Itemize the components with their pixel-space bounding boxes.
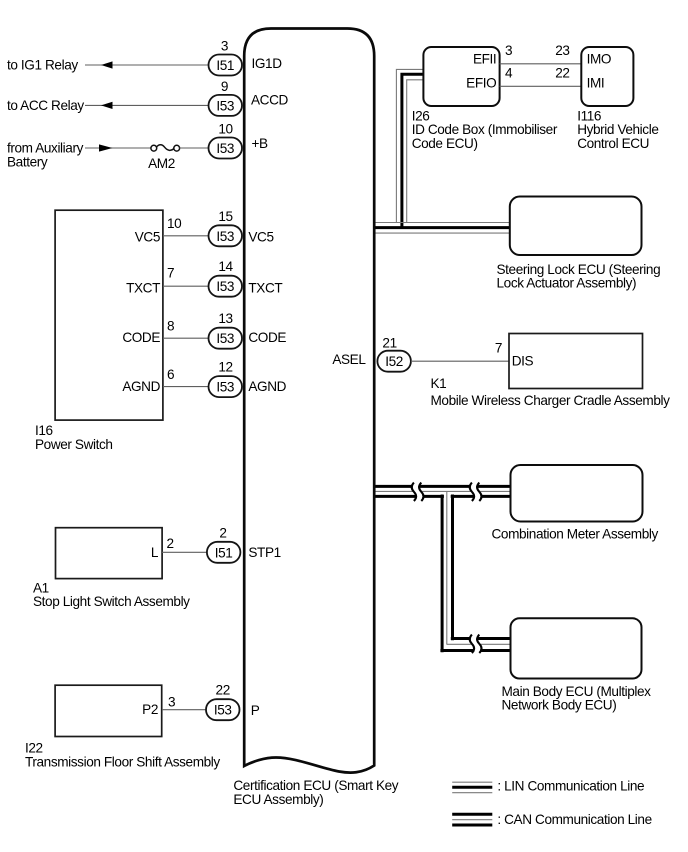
- connector I53 pin 14: [209, 259, 243, 297]
- svg-text:ID Code Box (Immobiliser: ID Code Box (Immobiliser: [412, 122, 558, 137]
- svg-text:to ACC Relay: to ACC Relay: [7, 98, 84, 113]
- svg-text:AGND: AGND: [248, 379, 286, 394]
- svg-text:Combination Meter Assembly: Combination Meter Assembly: [492, 527, 659, 542]
- LIN vertical bundle to ID Code Box: [396, 69, 423, 227]
- connector I53 pin 10: [209, 122, 243, 159]
- Stop Light Switch A1 box: [56, 528, 163, 579]
- CAN break symbol 2: [470, 483, 482, 501]
- svg-text:IMI: IMI: [587, 75, 605, 90]
- wire P: [162, 709, 206, 711]
- Hybrid Vehicle Control ECU I116 box: [581, 47, 633, 106]
- svg-text:Transmission Floor Shift Assem: Transmission Floor Shift Assembly: [25, 754, 220, 769]
- svg-text:ACCD: ACCD: [251, 92, 289, 107]
- arrow from Auxiliary Battery: [99, 144, 113, 151]
- svg-text:Certification ECU (Smart Key: Certification ECU (Smart Key: [233, 778, 398, 793]
- connector I53 pin 12: [209, 360, 243, 398]
- svg-text:Steering Lock ECU (Steering: Steering Lock ECU (Steering: [497, 262, 661, 277]
- svg-text:CODE: CODE: [248, 330, 286, 345]
- CAN horizontal bus to Combination Meter: [376, 486, 511, 498]
- svg-text:AM2: AM2: [148, 156, 175, 171]
- svg-text:K1: K1: [431, 376, 447, 391]
- connector I51 pin 3: [209, 39, 243, 76]
- svg-text:Lock Actuator Assembly): Lock Actuator Assembly): [497, 276, 637, 291]
- svg-text:P2: P2: [142, 702, 158, 717]
- connector I53 pin 9: [209, 79, 243, 116]
- svg-text:IG1D: IG1D: [252, 56, 283, 71]
- legend LIN symbol: [452, 782, 492, 793]
- svg-text:14: 14: [218, 259, 233, 274]
- svg-text:I26: I26: [412, 108, 430, 123]
- svg-text:I53: I53: [216, 98, 234, 113]
- LIN horizontal to Steering Lock ECU: [376, 223, 510, 234]
- svg-text:6: 6: [167, 367, 174, 382]
- svg-text:Control ECU: Control ECU: [577, 136, 649, 151]
- Power Switch I16 box: [55, 210, 163, 420]
- wire CODE: [163, 337, 209, 339]
- svg-text:I51: I51: [215, 545, 233, 560]
- svg-text:VC5: VC5: [135, 229, 160, 244]
- svg-text:4: 4: [505, 66, 513, 81]
- svg-text:CODE: CODE: [122, 330, 160, 345]
- legend CAN symbol: [452, 814, 492, 825]
- svg-text:to IG1 Relay: to IG1 Relay: [7, 58, 78, 73]
- arrow to ACC Relay: [101, 102, 113, 109]
- svg-text:I51: I51: [216, 58, 234, 73]
- svg-text:I53: I53: [214, 703, 232, 718]
- CAN break symbol 3: [470, 635, 482, 653]
- svg-text:Power Switch: Power Switch: [35, 437, 113, 452]
- svg-text:Code ECU): Code ECU): [412, 136, 478, 151]
- svg-text:15: 15: [218, 209, 232, 224]
- svg-text:I22: I22: [25, 741, 43, 756]
- Steering Lock ECU box: [510, 197, 642, 256]
- svg-text:3: 3: [221, 39, 228, 54]
- svg-text:EFII: EFII: [473, 51, 496, 66]
- Main Body ECU box: [511, 618, 642, 678]
- svg-text:P: P: [251, 703, 260, 718]
- svg-text:VC5: VC5: [248, 229, 273, 244]
- svg-text:I16: I16: [35, 423, 53, 438]
- wire VC5: [163, 235, 209, 237]
- svg-text:2: 2: [219, 525, 226, 540]
- Mobile Wireless Charger Cradle K1 box: [509, 334, 643, 389]
- wire STP1: [162, 551, 207, 553]
- svg-text:ASEL: ASEL: [332, 352, 366, 367]
- wire fuse to I53: [180, 147, 209, 149]
- svg-text:TXCT: TXCT: [248, 280, 282, 295]
- svg-text:L: L: [151, 545, 159, 560]
- svg-text:7: 7: [167, 265, 174, 280]
- wire from Auxiliary Battery: [85, 147, 151, 149]
- CAN break symbol 1: [412, 483, 424, 501]
- wire EFIO to IMI: [500, 85, 582, 87]
- wire to ACC Relay: [85, 104, 209, 106]
- connector I53 pin 15: [209, 209, 243, 247]
- svg-text:I53: I53: [216, 380, 234, 395]
- svg-text:7: 7: [495, 341, 502, 356]
- svg-text:10: 10: [218, 122, 233, 137]
- svg-text:12: 12: [218, 360, 232, 375]
- svg-text:10: 10: [167, 216, 182, 231]
- svg-text:Battery: Battery: [7, 154, 48, 169]
- svg-text:Hybrid Vehicle: Hybrid Vehicle: [577, 122, 658, 137]
- svg-text:I53: I53: [216, 229, 234, 244]
- svg-text:3: 3: [505, 43, 512, 58]
- svg-text:I53: I53: [216, 279, 234, 294]
- svg-text:22: 22: [216, 683, 230, 698]
- connector I51 pin 2: [207, 525, 241, 563]
- svg-text:Stop Light Switch Assembly: Stop Light Switch Assembly: [33, 594, 190, 609]
- svg-text:TXCT: TXCT: [126, 280, 160, 295]
- CAN vertical branch: [442, 491, 452, 652]
- svg-text:3: 3: [168, 695, 175, 710]
- ECU U1 Certification ECU body: [244, 29, 374, 773]
- svg-text:: LIN Communication Line: : LIN Communication Line: [497, 779, 644, 794]
- wire to IG1 Relay: [85, 64, 209, 66]
- svg-text:Main Body ECU (Multiplex: Main Body ECU (Multiplex: [502, 684, 652, 699]
- wire TXCT: [163, 285, 209, 287]
- wire AGND: [163, 386, 209, 388]
- connector I53 pin 13: [209, 311, 243, 349]
- svg-text:9: 9: [221, 79, 228, 94]
- svg-text:13: 13: [218, 311, 232, 326]
- svg-text:EFIO: EFIO: [466, 75, 496, 90]
- CAN lower horizontal to Main Body ECU: [440, 639, 511, 651]
- svg-text:22: 22: [555, 66, 569, 81]
- svg-text:2: 2: [167, 536, 174, 551]
- svg-text:ECU Assembly): ECU Assembly): [233, 792, 323, 807]
- svg-text:Network Body ECU): Network Body ECU): [502, 698, 617, 713]
- svg-text:I53: I53: [216, 331, 234, 346]
- svg-text:23: 23: [555, 43, 569, 58]
- svg-text:AGND: AGND: [122, 379, 160, 394]
- fuse AM2: [148, 145, 179, 171]
- Transmission Floor Shift I22 box: [55, 685, 162, 736]
- ID Code Box I26: [423, 47, 499, 106]
- wire EFII to IMO: [500, 63, 582, 65]
- Combination Meter Assembly box: [511, 465, 643, 522]
- svg-text:STP1: STP1: [248, 545, 280, 560]
- svg-text:A1: A1: [33, 580, 49, 595]
- svg-text:+B: +B: [252, 136, 269, 151]
- svg-text:I52: I52: [385, 354, 403, 369]
- svg-text:: CAN Communication Line: : CAN Communication Line: [497, 812, 651, 827]
- svg-text:IMO: IMO: [587, 51, 611, 66]
- svg-text:from Auxiliary: from Auxiliary: [7, 141, 84, 156]
- wire ASEL to DIS: [411, 360, 509, 362]
- svg-text:Mobile Wireless Charger Cradle: Mobile Wireless Charger Cradle Assembly: [431, 393, 671, 408]
- svg-text:I53: I53: [216, 141, 234, 156]
- svg-text:21: 21: [382, 336, 396, 351]
- svg-text:8: 8: [167, 318, 174, 333]
- connector I53 pin 22: [206, 683, 240, 721]
- arrow to IG1 Relay: [101, 61, 113, 68]
- svg-text:I116: I116: [577, 108, 601, 123]
- svg-text:DIS: DIS: [512, 354, 534, 369]
- connector I52 pin 21: [377, 336, 411, 372]
